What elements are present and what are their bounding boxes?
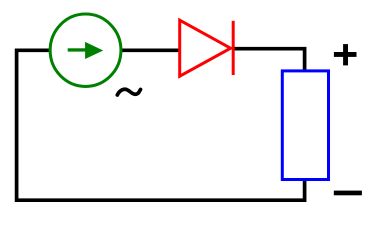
minus polarity label xyxy=(334,191,362,196)
wire: diode cathode to load top xyxy=(234,49,305,72)
AC current source I1: arrow head xyxy=(85,42,103,59)
load resistor R1 (blue rectangle) xyxy=(282,71,328,180)
wire: source right terminal to diode anode xyxy=(121,48,180,52)
AC symbol ~ below source xyxy=(117,89,140,95)
diode D1: anode triangle xyxy=(180,20,231,76)
plus polarity label xyxy=(334,44,357,65)
diode D1: cathode bar xyxy=(232,21,235,75)
AC current source I1: circle xyxy=(50,14,121,86)
wire: left loop from load bottom, along bottom, up left side, to source left terminal xyxy=(17,50,305,200)
AC current source I1: arrow shaft xyxy=(68,48,87,51)
